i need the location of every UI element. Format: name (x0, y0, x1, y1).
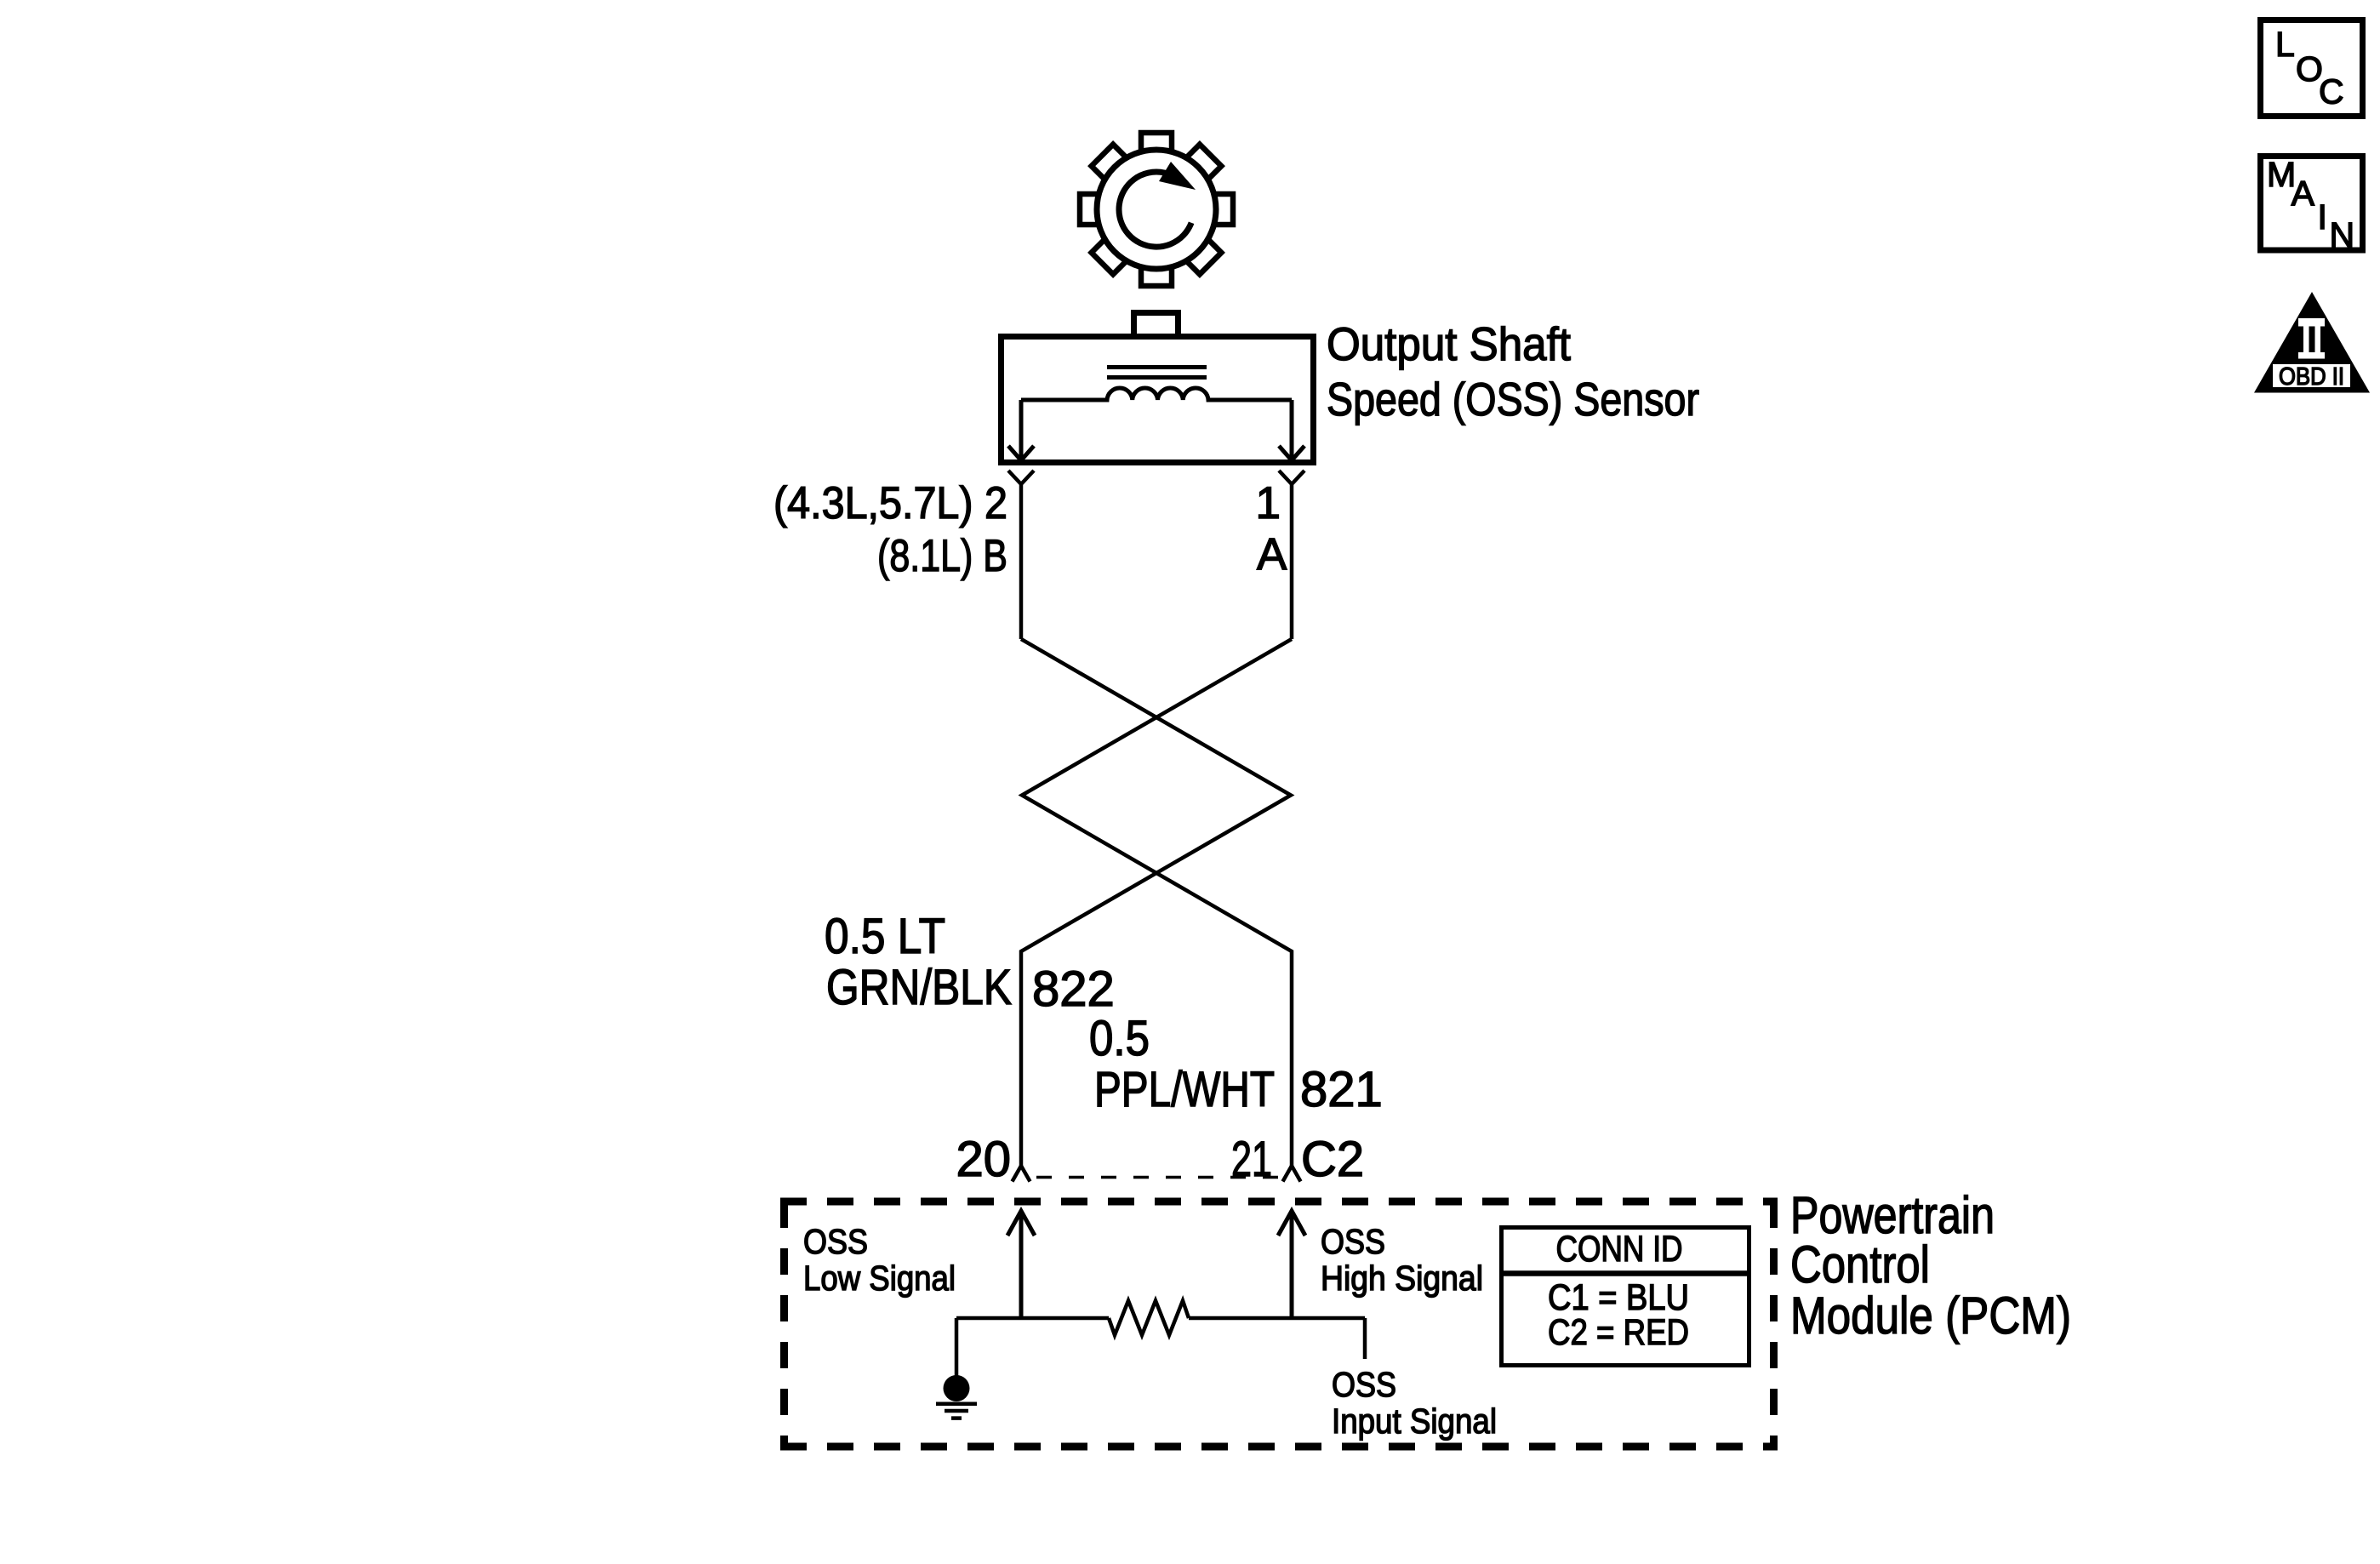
svg-text:(8.1L) B: (8.1L) B (877, 531, 1007, 581)
label Powertrain Control Module (PCM) (1790, 1186, 2071, 1344)
svg-text:822: 822 (1032, 962, 1115, 1017)
svg-text:GRN/BLK: GRN/BLK (826, 960, 1012, 1015)
connector face dashed line (1036, 1176, 1287, 1179)
svg-text:Module (PCM): Module (PCM) (1790, 1287, 2071, 1344)
connector Y pin 1 (1279, 471, 1304, 639)
PCM connector lambda terminal 20 (1013, 1166, 1030, 1182)
svg-text:I: I (2318, 197, 2327, 237)
sensor mounting tab (1134, 313, 1179, 337)
OBD II symbol (2254, 292, 2370, 393)
MAIN symbol (2261, 155, 2363, 254)
svg-text:0.5: 0.5 (1089, 1011, 1150, 1066)
svg-text:Output Shaft: Output Shaft (1327, 317, 1571, 370)
svg-text:(4.3L,5.7L) 2: (4.3L,5.7L) 2 (773, 478, 1007, 528)
OSS Low Signal arrow (1007, 1211, 1035, 1318)
svg-text:Speed (OSS) Sensor: Speed (OSS) Sensor (1327, 373, 1699, 425)
svg-text:A: A (2292, 174, 2315, 213)
LOC symbol (2261, 20, 2363, 117)
svg-text:Input Signal: Input Signal (1332, 1401, 1497, 1441)
internal arrow down left (1008, 400, 1034, 460)
label OSS High Signal (1321, 1222, 1483, 1298)
wire 821 twisted pair right (1022, 639, 1292, 1166)
inductor coil (1021, 388, 1292, 400)
label OSS Input Signal (1332, 1365, 1497, 1441)
svg-text:C2: C2 (1301, 1132, 1364, 1187)
svg-text:0.5 LT: 0.5 LT (825, 909, 945, 964)
svg-text:Low Signal: Low Signal (803, 1259, 956, 1298)
svg-text:C2 = RED: C2 = RED (1548, 1312, 1689, 1353)
svg-text:PPL/WHT: PPL/WHT (1094, 1062, 1275, 1117)
svg-text:High Signal: High Signal (1321, 1259, 1483, 1298)
svg-text:OSS: OSS (803, 1222, 868, 1261)
svg-text:OSS: OSS (1321, 1222, 1385, 1261)
svg-text:N: N (2330, 215, 2355, 254)
svg-text:A: A (1257, 529, 1287, 579)
label Output Shaft Speed (OSS) Sensor (1327, 317, 1699, 425)
wire 822 twisted pair left (1021, 639, 1291, 1166)
internal arrow down right (1279, 400, 1304, 460)
inductor core (1107, 365, 1207, 380)
reluctor gear wheel (1080, 133, 1233, 286)
internal PCM wires (956, 1318, 1365, 1376)
svg-text:CONN ID: CONN ID (1556, 1229, 1683, 1270)
connector Y pin 2 (1008, 471, 1034, 639)
svg-text:20: 20 (956, 1132, 1011, 1187)
svg-text:OBD II: OBD II (2279, 363, 2344, 391)
svg-text:Control: Control (1790, 1236, 1930, 1293)
PCM connector lambda terminal 21 (1283, 1166, 1301, 1182)
svg-text:1: 1 (1256, 478, 1281, 528)
rotation arrow (1119, 162, 1196, 247)
junction dot (944, 1375, 970, 1401)
svg-text:OSS: OSS (1332, 1365, 1396, 1404)
OSS High Signal arrow (1278, 1211, 1305, 1318)
CONN ID table (1499, 1228, 1751, 1366)
svg-text:C: C (2319, 72, 2344, 111)
svg-text:821: 821 (1300, 1062, 1383, 1117)
resistor (1109, 1301, 1189, 1336)
wire label 0.5 LT GRN/BLK (825, 909, 1012, 1015)
wire label 0.5 PPL/WHT (1089, 1011, 1275, 1117)
svg-text:21: 21 (1231, 1132, 1272, 1187)
PCM dashed box (780, 1202, 1778, 1447)
ground symbol (936, 1404, 977, 1418)
svg-text:L: L (2275, 25, 2295, 64)
OSS sensor box (1002, 337, 1314, 463)
label OSS Low Signal (803, 1222, 956, 1298)
